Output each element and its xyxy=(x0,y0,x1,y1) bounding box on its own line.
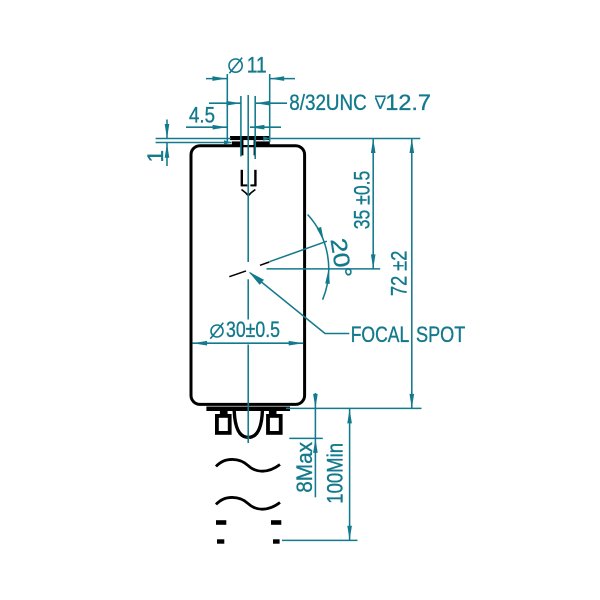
svg-text:11: 11 xyxy=(247,53,267,78)
svg-text:8Max: 8Max xyxy=(292,441,317,493)
svg-text:72 ±2: 72 ±2 xyxy=(387,251,412,296)
svg-text:FOCAL: FOCAL xyxy=(351,322,410,347)
svg-text:8/32UNC: 8/32UNC xyxy=(289,90,366,115)
svg-text:12.7: 12.7 xyxy=(385,90,431,115)
svg-text:1: 1 xyxy=(143,150,168,163)
svg-text:35 ±0.5: 35 ±0.5 xyxy=(349,171,374,230)
svg-text:4.5: 4.5 xyxy=(189,103,215,128)
svg-text:30±0.5: 30±0.5 xyxy=(226,317,280,342)
svg-text:SPOT: SPOT xyxy=(416,322,466,347)
svg-text:100Min: 100Min xyxy=(322,443,347,504)
